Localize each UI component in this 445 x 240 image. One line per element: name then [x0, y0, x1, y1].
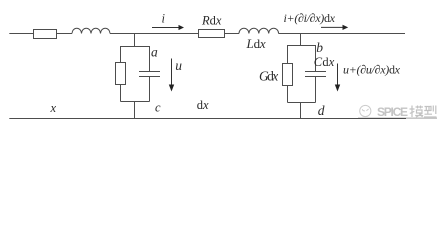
svg-text:u: u	[175, 58, 182, 73]
svg-text:Ldx: Ldx	[246, 36, 266, 51]
svg-text:i+(∂i/∂x)dx: i+(∂i/∂x)dx	[284, 11, 336, 25]
svg-text:d: d	[318, 103, 325, 118]
svg-text:b: b	[316, 40, 323, 55]
svg-text:dx: dx	[197, 98, 209, 112]
svg-text:Rdx: Rdx	[201, 14, 222, 28]
svg-text:x: x	[50, 101, 57, 115]
svg-text:Gdx: Gdx	[259, 69, 278, 84]
svg-text:a: a	[151, 45, 158, 60]
svg-text:SPICE: SPICE	[377, 105, 408, 119]
svg-text:i: i	[162, 12, 166, 26]
svg-text:c: c	[155, 101, 161, 115]
svg-text:Cdx: Cdx	[314, 55, 335, 69]
svg-text:u+(∂u/∂x)dx: u+(∂u/∂x)dx	[343, 63, 401, 77]
